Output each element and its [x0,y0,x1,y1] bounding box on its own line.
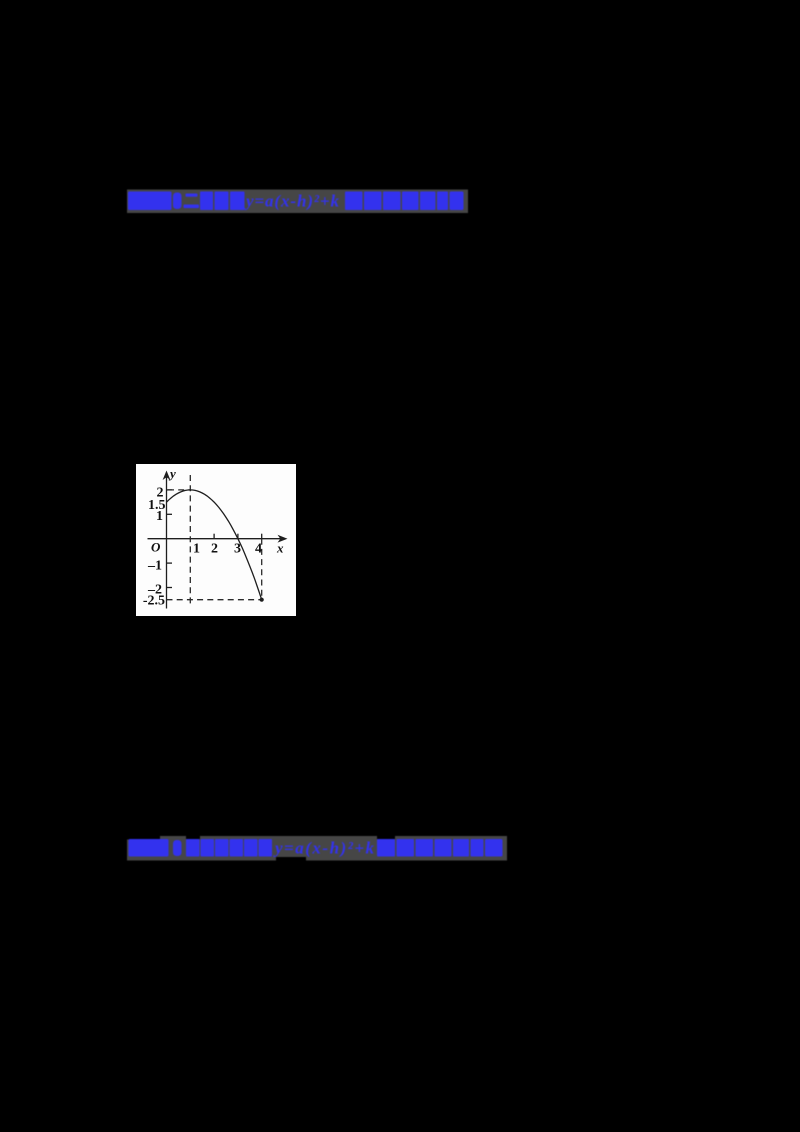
svg-text:y: y [168,466,176,481]
svg-text:4: 4 [255,541,262,556]
svg-text:O: O [151,539,161,554]
svg-text:–1: –1 [147,558,162,573]
svg-text:x: x [276,540,284,555]
svg-text:1: 1 [156,509,163,524]
svg-text:2: 2 [211,541,218,556]
svg-text:y=a(x-h)²+k: y=a(x-h)²+k [244,192,340,211]
svg-text:3: 3 [234,541,241,556]
svg-text:y=a(x-h)²+k: y=a(x-h)²+k [273,839,375,858]
svg-text:1: 1 [193,541,200,556]
svg-text:-2.5: -2.5 [143,593,165,608]
